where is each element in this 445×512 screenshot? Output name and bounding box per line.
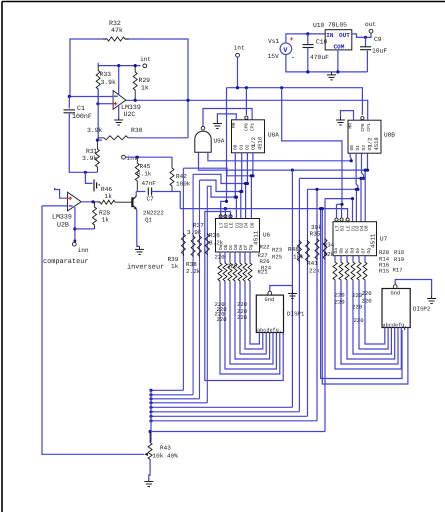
wire U7 output 3 down xyxy=(352,256,354,261)
wire U7 output 4 down xyxy=(358,256,360,261)
resistor R39 body xyxy=(181,233,185,256)
wire U2C non-inverting input xyxy=(98,103,113,105)
resistor 220 bank1 #1 xyxy=(223,262,227,282)
wire R35 column xyxy=(316,189,318,420)
wire DISP1 pin stub 4 xyxy=(272,333,274,336)
svg-text:3.9k: 3.9k xyxy=(87,127,103,134)
U2B plus mark xyxy=(68,196,72,200)
svg-text:R23: R23 xyxy=(272,247,282,254)
junction U8B O2 / band B3 xyxy=(362,177,365,180)
node int terminal (oscillator) xyxy=(143,64,147,68)
wire U8A O0 down xyxy=(234,153,236,197)
resistor 220 bank2 #1 xyxy=(339,261,343,281)
svg-text:4518: 4518 xyxy=(373,137,380,150)
wire DISP1 pin stub 6 xyxy=(279,333,281,336)
ground Q1 emitter xyxy=(135,246,144,254)
wire DISP1 pin stub 2 xyxy=(265,333,267,336)
wire U6 D-D up xyxy=(250,176,252,219)
svg-text:int: int xyxy=(140,56,151,63)
wire bundle horizontal y=420.8 xyxy=(151,420,317,422)
junction int rail / R29 xyxy=(134,64,137,67)
wire net L1 xyxy=(183,168,253,176)
voltage source Vs1 xyxy=(280,43,292,55)
junction C10 top xyxy=(306,32,309,35)
wire C9 top lead xyxy=(365,37,367,46)
wire bundle horizontal y=398.8 xyxy=(151,398,200,400)
node int terminal (inverseur) xyxy=(122,155,126,159)
svg-text:U7: U7 xyxy=(380,236,388,243)
junction OUT / C9 xyxy=(364,36,367,39)
wire net L4 xyxy=(207,186,236,197)
svg-text:Of: Of xyxy=(361,248,367,254)
svg-text:220: 220 xyxy=(217,316,228,323)
capacitor C9 xyxy=(360,47,371,50)
svg-text:R37: R37 xyxy=(193,222,204,229)
wire R32 right to R30 via output junction xyxy=(125,39,188,138)
U9A output bubble xyxy=(201,126,205,130)
junction net A / U8A CP1 xyxy=(245,86,248,89)
resistor 220 bank1 #3 xyxy=(233,262,237,282)
resistor R48 body xyxy=(297,240,301,262)
junction U7 bubble header / net A drop xyxy=(340,203,343,206)
wire DISP1 gnd xyxy=(270,286,293,292)
junction bundle / summing node y=394.8 xyxy=(149,393,152,396)
U8A pin labels xyxy=(232,122,257,150)
wire U2C output net to U8B CP0 xyxy=(126,100,368,120)
wire DISP1 pin stub 7 xyxy=(282,333,284,336)
junction U2B output / R28 xyxy=(91,200,94,203)
display DISP1 box xyxy=(256,295,283,332)
U7 LE bubble xyxy=(346,218,349,221)
svg-text:R19: R19 xyxy=(394,256,404,263)
svg-text:inverseur: inverseur xyxy=(127,264,164,272)
wire DISP2 pin stub 1 xyxy=(387,328,389,331)
regulator U10 78L05 box xyxy=(325,30,352,50)
counter U8B 4518 box xyxy=(348,120,381,153)
wire bracket bank1 #0 to DISP1 xyxy=(220,282,280,374)
wire band B3 xyxy=(299,177,363,179)
resistor 220 bank2 #4 xyxy=(357,261,361,281)
junction U6 D / net L1 xyxy=(250,174,253,177)
wire R39 column xyxy=(182,168,184,390)
wire U8A O1 down xyxy=(241,153,243,192)
wire int to R42 top xyxy=(126,157,173,162)
junction U7 C / band B3 xyxy=(359,177,362,180)
wire R46 to Q1 base xyxy=(118,201,132,203)
svg-text:R32: R32 xyxy=(109,20,121,27)
svg-text:Q1: Q1 xyxy=(145,217,152,224)
resistor 220 bank2 #2 xyxy=(345,261,349,281)
wire bracket bank2 #0 to DISP2 xyxy=(335,281,401,369)
logic gate U9A NAND xyxy=(195,131,211,152)
svg-text:R17: R17 xyxy=(393,267,403,274)
resistor 220 bank1 #2 xyxy=(228,262,232,282)
U7 BI bubble xyxy=(340,218,343,221)
wire C1 bottom to R31 bottom xyxy=(69,113,97,173)
U8B CP1 bubble xyxy=(361,117,364,120)
svg-text:220: 220 xyxy=(237,314,248,321)
ground DISP1 xyxy=(288,291,297,299)
resistor R30 xyxy=(98,136,131,140)
junction R30/R31 xyxy=(96,139,99,142)
junction bundle / summing node y=416.3 xyxy=(149,415,152,418)
U2B minus mark xyxy=(69,205,73,207)
junction U6 BI / C7 net xyxy=(224,207,227,210)
wire U8A O2 down xyxy=(246,153,248,184)
wire U6 LT feed from net A xyxy=(221,201,227,218)
svg-text:-: - xyxy=(291,54,296,63)
resistor R32 xyxy=(103,37,129,41)
svg-text:47nF: 47nF xyxy=(142,180,157,187)
ground DISP2 xyxy=(427,296,436,304)
wire DISP2 gnd xyxy=(395,280,431,296)
wire U6 LE / DISP1 dp long loop xyxy=(205,212,283,381)
wire U8A O3 down xyxy=(252,153,254,176)
resistor R35 body xyxy=(315,238,319,260)
svg-text:O0: O0 xyxy=(233,144,239,150)
wire bundle horizontal y=394.8 xyxy=(151,394,193,396)
wire COM pin down xyxy=(337,50,339,72)
junction band B2 / DAC2 drop xyxy=(291,169,294,172)
svg-text:R36: R36 xyxy=(209,232,220,239)
wire bracket bank1 #5 to DISP1 xyxy=(245,282,263,349)
svg-text:1k: 1k xyxy=(171,263,179,270)
wire U2B bottom pin to inn xyxy=(74,207,76,242)
wire U8B O1 down xyxy=(356,153,358,189)
wire to out terminal xyxy=(366,33,372,37)
wire DISP2 pin stub 4 xyxy=(397,328,399,331)
svg-text:1k: 1k xyxy=(102,217,110,224)
junction bundle / summing node y=398.8 xyxy=(149,397,152,400)
junction U8B O3 / band B2 xyxy=(366,169,369,172)
wire bracket bank2 #5 to DISP2 xyxy=(365,281,385,344)
wire Q1 collector xyxy=(135,192,137,197)
svg-text:3.9k: 3.9k xyxy=(82,155,98,162)
svg-text:R21: R21 xyxy=(258,269,269,276)
svg-text:Og: Og xyxy=(366,248,372,254)
svg-text:220: 220 xyxy=(354,317,365,324)
wire bracket bank1 #3 to DISP1 xyxy=(235,282,270,359)
wire U7 D-B up xyxy=(355,189,357,221)
U6 LT bubble xyxy=(219,215,222,218)
wire net A left drop xyxy=(226,88,228,202)
wire R43 to ground xyxy=(149,460,150,479)
svg-text:Gnd: Gnd xyxy=(391,291,401,297)
resistor 220 bank1 #0 xyxy=(218,262,222,282)
svg-text:CP1: CP1 xyxy=(250,123,256,131)
svg-text:R35: R35 xyxy=(310,231,321,238)
svg-text:10k 40%: 10k 40% xyxy=(153,453,179,460)
wire net L2 xyxy=(193,174,247,183)
svg-text:Oa: Oa xyxy=(333,248,339,254)
wire DISP1 pin stub 3 xyxy=(269,333,271,336)
resistor 220 bank2 #0 xyxy=(333,261,337,281)
junction bundle / summing node y=402.8 xyxy=(149,401,152,404)
junction R43 top xyxy=(149,430,152,433)
svg-text:CP1: CP1 xyxy=(366,123,372,131)
svg-text:0.1k: 0.1k xyxy=(137,171,152,178)
U8B pin labels xyxy=(349,123,374,151)
svg-text:22k: 22k xyxy=(309,268,320,275)
border frame top xyxy=(2,1,445,3)
DISP2 gnd pin circle xyxy=(393,285,397,289)
svg-text:C1: C1 xyxy=(77,105,85,112)
wire bracket bank2 #2 to DISP2 xyxy=(347,281,395,359)
junction R28 bottom xyxy=(73,227,76,230)
wire DISP2 pin8 long feed xyxy=(322,209,408,384)
wire U6 output 3 down xyxy=(234,252,236,262)
junction U8B O1 / band B4 xyxy=(356,188,359,191)
resistor 220 bank1 #5 xyxy=(243,262,247,282)
capacitor C1 xyxy=(64,110,76,113)
junction U6 B / net L3 xyxy=(239,190,242,193)
U2C minus mark xyxy=(114,95,118,97)
node inn terminal xyxy=(72,242,76,246)
node out terminal xyxy=(369,29,373,33)
wire divider vertical xyxy=(97,89,99,140)
svg-text:78L05: 78L05 xyxy=(328,22,347,29)
wire U6 D-A up xyxy=(235,197,237,218)
junction O2 / net L2 xyxy=(246,182,249,185)
wire C10 top lead xyxy=(307,34,309,45)
wire R30 right xyxy=(131,137,188,139)
wire C7 net to U7 LE bubble xyxy=(180,209,347,219)
svg-text:R25: R25 xyxy=(272,254,282,261)
wire DISP2 pin7 long feed xyxy=(321,209,402,379)
U6 LE bubble xyxy=(229,215,232,218)
svg-text:3.9k: 3.9k xyxy=(101,79,117,86)
svg-text:470uF: 470uF xyxy=(310,54,329,61)
wire U7 D-C up xyxy=(360,178,362,221)
capacitor (unlabeled, near R46) xyxy=(94,180,100,192)
wire U7 output 5 down xyxy=(364,256,366,261)
svg-text:R18: R18 xyxy=(394,249,404,256)
wire bundle horizontal y=411.8 xyxy=(151,411,299,413)
svg-text:inn: inn xyxy=(78,247,89,254)
wire DISP2 pin stub 0 xyxy=(384,328,386,331)
junction R35 / band B4 xyxy=(315,188,318,191)
resistor R41 body xyxy=(306,240,310,262)
svg-text:220: 220 xyxy=(335,292,346,299)
svg-text:R15: R15 xyxy=(379,268,389,275)
svg-text:4511: 4511 xyxy=(370,233,377,248)
resistor R46 xyxy=(98,200,118,204)
svg-text:220: 220 xyxy=(362,298,373,305)
junction net A / U7 enable drop xyxy=(280,86,283,89)
svg-text:U8A: U8A xyxy=(268,132,279,139)
svg-text:R45: R45 xyxy=(140,163,151,170)
wire U6 D-C up xyxy=(245,184,247,219)
svg-text:MR: MR xyxy=(349,123,354,129)
resistor 220 bank2 #5 xyxy=(363,261,367,281)
op-amp U2B LM339 xyxy=(68,192,82,211)
potentiometer R43 xyxy=(148,432,152,461)
U8B rotated label 1/2 4518 xyxy=(367,137,381,150)
resistor 220 bank1 #4 xyxy=(238,262,242,282)
wire DISP2 pin stub 6 xyxy=(404,328,406,331)
wire U6 D-B up xyxy=(240,192,242,219)
wire U7 D-A up xyxy=(352,199,354,222)
wire to small capacitor xyxy=(85,172,92,183)
svg-text:Ob: Ob xyxy=(339,248,345,254)
wire C1 top lead xyxy=(68,97,70,109)
svg-text:Od: Od xyxy=(350,248,356,254)
svg-text:Oe: Oe xyxy=(355,248,361,254)
wire DISP2 pin stub 2 xyxy=(390,328,392,331)
svg-text:10uF: 10uF xyxy=(372,48,387,55)
junction int / R45 xyxy=(136,156,139,159)
junction C2 tap xyxy=(84,171,87,174)
wire U2B output xyxy=(81,201,100,203)
wire R38 column xyxy=(199,180,201,399)
U7 LT bubble xyxy=(335,218,338,221)
svg-text:U6: U6 xyxy=(263,232,271,239)
counter U8A 4518 box xyxy=(232,120,265,153)
node int terminal (top) xyxy=(236,53,240,57)
wire U2B - input xyxy=(42,205,68,207)
wire Vs1 plus to regulator IN xyxy=(286,34,325,43)
svg-text:LE: LE xyxy=(228,222,234,228)
resistor 220 bank1 #6 xyxy=(248,262,252,282)
svg-text:R46: R46 xyxy=(101,186,112,193)
svg-text:int: int xyxy=(234,45,245,52)
svg-text:C7: C7 xyxy=(147,196,155,203)
svg-text:Oc: Oc xyxy=(344,248,350,254)
ground U8A MR xyxy=(213,121,222,129)
junction above inn xyxy=(74,240,77,243)
junction bundle / summing node y=390.3 xyxy=(149,389,152,392)
junction U6 C / net L2 xyxy=(244,182,247,185)
svg-text:47k: 47k xyxy=(111,27,123,34)
wire R36 column xyxy=(206,186,208,403)
svg-text:R48: R48 xyxy=(288,246,299,253)
wire Q1 emitter xyxy=(137,210,140,247)
junction O3 / net L1 xyxy=(251,174,254,177)
wire bracket bank1 #2 to DISP1 xyxy=(230,282,273,364)
svg-text:comparateur: comparateur xyxy=(43,258,89,266)
svg-text:D4: D4 xyxy=(244,222,250,228)
wire net A to U8B CP1 xyxy=(227,88,363,115)
wire U8B O2 down xyxy=(362,153,364,178)
svg-text:2.2k: 2.2k xyxy=(186,268,201,275)
wire U6 output 5 down xyxy=(244,252,246,262)
svg-text:1k: 1k xyxy=(105,193,113,200)
wire net A to U7 bubbles xyxy=(282,88,342,205)
svg-text:U8B: U8B xyxy=(384,132,395,139)
wire net L3 xyxy=(200,180,242,191)
wire DAC2 plain column xyxy=(291,170,293,407)
svg-text:R39: R39 xyxy=(168,256,179,263)
junction U8B O0 / band B1 xyxy=(350,159,353,162)
svg-text:15V: 15V xyxy=(268,53,280,60)
wire U7 output 1 down xyxy=(340,256,342,261)
junction U7 D / band B2 xyxy=(364,169,367,172)
resistor 220 bank2 #3 xyxy=(351,261,355,281)
svg-text:CP0: CP0 xyxy=(360,123,366,131)
svg-text:D8: D8 xyxy=(363,225,369,231)
wire U2C gnd pin xyxy=(118,106,120,117)
wire U7 LT pin drop xyxy=(336,204,338,218)
wire U8B MR to ground xyxy=(341,111,354,121)
wire U6 output 0 down xyxy=(219,252,221,262)
U2C plus mark xyxy=(114,102,118,106)
svg-text:2N2222: 2N2222 xyxy=(143,210,164,217)
svg-text:U2B: U2B xyxy=(57,222,69,229)
resistor R33 xyxy=(96,66,100,104)
wire bundle horizontal y=390.3 xyxy=(151,389,183,391)
wire R32 left xyxy=(70,39,107,97)
svg-text:C9: C9 xyxy=(374,36,382,43)
svg-text:DISP2: DISP2 xyxy=(413,306,431,313)
svg-text:O3: O3 xyxy=(251,144,257,150)
svg-text:R43: R43 xyxy=(160,445,171,452)
capacitor C7 xyxy=(148,188,151,196)
svg-text:O3: O3 xyxy=(367,145,373,151)
wire U6 BI feed xyxy=(224,209,226,219)
svg-text:220: 220 xyxy=(227,263,238,270)
wire R48 column xyxy=(298,178,300,411)
svg-text:+: + xyxy=(290,36,294,43)
svg-text:4518: 4518 xyxy=(257,137,264,150)
svg-text:BI: BI xyxy=(339,225,345,231)
ground U8B MR xyxy=(336,117,345,125)
junction output / R29 xyxy=(134,99,137,102)
svg-text:220: 220 xyxy=(352,304,363,311)
wire DISP2 pin stub 3 xyxy=(394,328,396,331)
wire collector node to C7 xyxy=(136,191,145,193)
decoder U6 4511 box xyxy=(216,219,260,253)
transistor Q1 2N2222 xyxy=(132,196,137,209)
wire band B4 xyxy=(308,188,358,190)
resistor R45 xyxy=(135,157,139,191)
svg-text:Gnd: Gnd xyxy=(265,297,275,303)
wire bracket bank1 #6 to DISP1 xyxy=(250,282,259,344)
wire DISP2 pin stub 7 xyxy=(407,328,409,331)
wire left bus to R43 wiper xyxy=(42,206,144,454)
junction O0 / net L4 xyxy=(234,196,237,199)
junction U7 A / band B5 xyxy=(351,197,354,200)
svg-text:O2: O2 xyxy=(245,144,251,150)
display DISP2 box xyxy=(382,289,410,328)
wire bracket bank1 #4 to DISP1 xyxy=(240,282,266,354)
svg-text:O1: O1 xyxy=(239,144,245,150)
wire bundle horizontal y=431.5 (R34 net) xyxy=(150,431,325,433)
svg-text:R30: R30 xyxy=(131,127,143,134)
wire C7 right xyxy=(152,191,172,193)
U8A CP1 bubble xyxy=(245,116,248,119)
capacitor C10 xyxy=(303,45,314,48)
junction int rail / U2C V+ xyxy=(117,64,120,67)
svg-text:Vs1: Vs1 xyxy=(268,38,280,45)
wire R30 left xyxy=(97,139,102,141)
svg-text:R33: R33 xyxy=(100,71,112,78)
svg-text:C10: C10 xyxy=(316,39,328,46)
svg-text:U9A: U9A xyxy=(214,138,225,145)
wire R37 column xyxy=(192,174,194,394)
wire R28 bottom xyxy=(75,228,95,230)
junction COM / rail xyxy=(336,70,339,73)
svg-text:D8: D8 xyxy=(249,222,255,228)
border frame left xyxy=(1,2,3,512)
wire summing node vertical xyxy=(150,390,152,442)
junction C7 net / DISP2 feed 2 xyxy=(321,207,324,210)
junction bundle / summing node y=420.8 xyxy=(149,419,152,422)
svg-text:U2C: U2C xyxy=(124,111,136,118)
wire U7 bubble header xyxy=(337,203,343,205)
wire U6 output 2 down xyxy=(229,252,231,262)
svg-text:DISP1: DISP1 xyxy=(287,311,305,318)
wire U7 output 2 down xyxy=(346,256,348,261)
